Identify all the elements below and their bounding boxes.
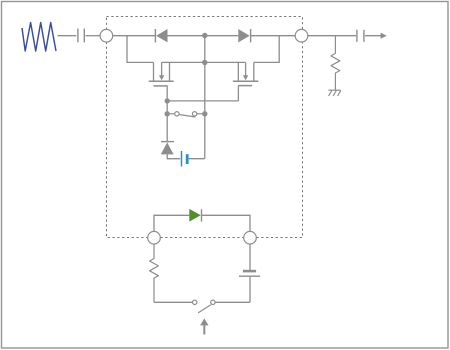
wire bottom rail right [215,301,250,303]
ground [328,90,341,96]
wire output port to C2 [308,35,356,37]
node junction dot switch right [202,111,207,116]
wire gate tie Q1-Q2 [167,100,238,102]
wire B1 to center bus [189,158,205,160]
node junction dot top center [202,33,207,38]
wire D2 to output port [251,35,296,37]
wire D1 to center node [168,35,239,37]
wire lower loop top right [202,215,251,231]
wire source to C1 [58,35,77,37]
transistor Q2 [233,62,258,101]
battery B2 [239,271,260,276]
capacitor C1 [78,29,84,43]
wire input branch down to Q1 drain [127,36,154,63]
wire Q1 source to center node [162,61,205,63]
wire D3 to battery B1 [167,154,180,158]
diode D3 (points up) [161,142,174,155]
node junction dot gate tie [165,98,170,103]
capacitor C2 [357,30,364,42]
source V1 waveform [22,23,56,52]
wire B2 to bottom rail [249,277,251,303]
switch S1 [170,112,202,117]
switch S2 [193,300,216,313]
wire P2 to battery B2 [249,244,251,270]
diode D4 (green LED, points right) [189,209,201,222]
transistor Q1 [149,62,174,101]
diode D1 (points left) [155,29,167,42]
node IN port circle [100,29,113,42]
wire Q2 drain to top rail [254,36,279,63]
dashed subcircuit boundary box [107,17,303,238]
wire left bus vertical [166,101,168,141]
node junction dot center upper [202,60,207,65]
node P1 port circle [148,231,161,244]
wire lower loop top left [154,215,189,231]
wire input port to D1 [113,35,156,37]
node P2 port circle [244,231,257,244]
wire C2 to output arrow [365,33,387,39]
resistor R1 [331,36,340,90]
wire C1 to input port [86,35,101,37]
node junction dot switch left [165,111,170,116]
node OUT port circle [295,29,308,42]
battery B1 [182,151,188,167]
resistor R2 [150,244,159,302]
wire center vertical bus [204,36,206,159]
arrow actuator [200,318,208,334]
diode D2 (points right) [238,29,250,42]
wire center node to Q2 [205,61,246,63]
wire bottom rail left [154,301,193,303]
